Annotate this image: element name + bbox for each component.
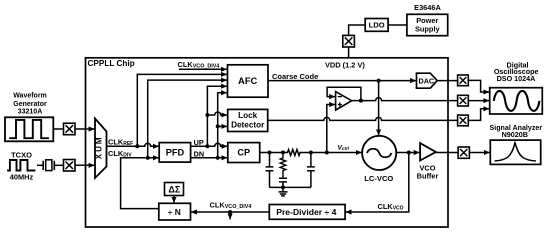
resistor R2 (vertical) [280, 153, 286, 179]
node ground rail [281, 185, 285, 189]
wire coarse code down to LC-VCO tuning input [378, 81, 380, 136]
DAC [417, 73, 438, 88]
svg-text:PFD: PFD [166, 148, 185, 158]
delta-sigma box [165, 183, 184, 196]
wire X-pad 4 to signal analyzer [469, 152, 490, 154]
svg-text:Pre-Divider ÷ 4: Pre-Divider ÷ 4 [276, 207, 336, 217]
wire LC-VCO output to VCO buffer [396, 152, 419, 154]
oscilloscope sine trace [494, 91, 540, 111]
svg-text:DSO 1024A: DSO 1024A [497, 74, 536, 83]
wire CLKREF: MUX to PFD (hop over divider riser) [107, 143, 159, 146]
wire X-pad 3 to oscilloscope [468, 109, 489, 121]
wire pre-divider output to divide-by-N [191, 211, 269, 213]
wire CLKDIV: divide-by-N output up to PFD [121, 158, 159, 209]
wire VCO buffer output to X-pad 4 [436, 152, 458, 154]
wire TCXO to crystal [37, 164, 43, 166]
svg-text:AFC: AFC [238, 75, 257, 86]
wire DN riser to lock detector input [218, 125, 228, 127]
CPPLL chip boundary box [86, 58, 449, 227]
wire DN: PFD to CP [191, 157, 228, 159]
X-pad 4 (RF output) [458, 147, 469, 158]
svg-text:DAC: DAC [419, 76, 435, 85]
svg-text:CP: CP [237, 148, 250, 158]
node CLKREF to AFC riser junction [135, 144, 139, 148]
svg-text:Waveform: Waveform [13, 93, 47, 100]
svg-text:CPPLL Chip: CPPLL Chip [88, 59, 135, 68]
MUX [95, 119, 107, 179]
wire op-amp feedback loop to inverting input [327, 87, 361, 100]
attenuator X2 (TCXO) [64, 160, 76, 172]
node DN riser to lock detector junction [216, 124, 220, 128]
wire coarse code: AFC to DAC [268, 80, 416, 82]
ground [279, 187, 288, 196]
svg-text:ΔΣ: ΔΣ [168, 185, 180, 195]
CP box [228, 143, 260, 163]
TCXO square-wave symbol [7, 160, 35, 171]
op-amp U1 (Vctrl buffer) [336, 92, 352, 111]
LDO box [365, 19, 388, 32]
lock detector box [228, 109, 268, 131]
wire loop filter ground rail [270, 186, 311, 188]
svg-text:E3646A: E3646A [414, 3, 441, 12]
waveform generator box [5, 117, 53, 141]
wire attenuator to MUX input 0 [75, 128, 95, 130]
PFD box [159, 143, 190, 163]
svg-text:Detector: Detector [231, 120, 265, 129]
svg-text:Generator: Generator [13, 101, 47, 108]
capacitor C3 [307, 153, 315, 188]
wire DN riser to AFC input 5 [218, 93, 227, 158]
node UP riser to lock detector junction [205, 113, 209, 117]
wire op-amp output to X-pad 2 (hop over VCO tuning line) [352, 98, 458, 101]
wire X-pad 1 to oscilloscope [468, 80, 489, 92]
wire DAC output to X-pad 1 [437, 80, 457, 82]
wire UP riser to lock detector input (hop over DN riser) [207, 112, 227, 115]
svg-text:40MHz: 40MHz [10, 172, 34, 181]
X-pad 2 (Vctrl monitor) [458, 95, 469, 106]
divide-by-N box [159, 203, 191, 220]
svg-text:VDD (1.2 V): VDD (1.2 V) [325, 60, 365, 69]
wire attenuator to chip VDD rail [348, 47, 350, 58]
wire delta-sigma to divide-by-N [173, 196, 175, 203]
wire crystal to attenuator [54, 164, 63, 166]
svg-text:LDO: LDO [369, 21, 385, 30]
capacitor C1 [266, 153, 274, 188]
label Digital Oscilloscope DSO 1024A [494, 60, 539, 83]
power supply box [407, 14, 448, 35]
attenuator X1 (generator) [64, 123, 76, 135]
svg-text:Coarse Code: Coarse Code [272, 72, 318, 81]
wire CLKREF riser to AFC input 2 [137, 74, 227, 146]
node loop filter C3 [309, 151, 313, 155]
node CLKVCO_DIV4 tap [228, 210, 232, 214]
wire CLKVCO_DIV4 tap stub [229, 212, 231, 219]
node VCO output to feedback junction [407, 151, 411, 155]
svg-text:÷ N: ÷ N [168, 207, 181, 217]
svg-text:CLKDIV: CLKDIV [108, 149, 132, 159]
wire power supply to LDO [388, 24, 407, 26]
node loop filter C1 [268, 151, 272, 155]
wire X-pad 2 to oscilloscope [468, 100, 489, 102]
svg-text:XUM: XUM [95, 135, 104, 159]
wire UP: PFD to CP (hop over DN riser) [191, 143, 228, 146]
crystal symbol [43, 161, 54, 170]
wire LDO to VDD attenuator [349, 25, 366, 35]
svg-text:CLKVCO_DIV4: CLKVCO_DIV4 [210, 200, 252, 210]
wire CLKDIV riser to AFC input 3 [148, 80, 227, 158]
wire lock detector output to X-pad 3 (hops over two verticals) [268, 117, 458, 120]
oscilloscope box [490, 88, 543, 114]
signal analyzer box [490, 140, 540, 164]
svg-text:TCXO: TCXO [11, 150, 32, 159]
svg-text:CLKVCO: CLKVCO [378, 202, 404, 212]
svg-text:Buffer: Buffer [417, 172, 439, 181]
node UP riser junction [205, 144, 209, 148]
wire UP riser to AFC input 4 [207, 86, 227, 146]
node loop filter RC branch [281, 151, 285, 155]
node CLKDIV to AFC riser junction [146, 156, 150, 160]
square-wave symbol inside generator [9, 120, 49, 138]
VCO buffer [420, 143, 436, 160]
capacitor C2 [279, 178, 287, 187]
svg-text:CLKVCO_DIV4: CLKVCO_DIV4 [178, 60, 220, 70]
svg-text:33210A: 33210A [18, 109, 43, 116]
wire CP output / Vctrl line with series resistor, to LC-VCO [260, 150, 362, 156]
node Vctrl to op-amp junction [325, 151, 329, 155]
node coarse code to VCO branch [377, 79, 381, 83]
label Waveform Generator 33210A [13, 93, 47, 116]
LC-VCO [362, 136, 396, 170]
signal analyzer spectrum trace [495, 143, 536, 161]
wire generator to attenuator [53, 128, 63, 130]
svg-text:N9020B: N9020B [502, 130, 528, 139]
X-pad 3 (lock monitor) [458, 115, 469, 126]
wire CLKVCO_DIV4 stub to AFC input 1 [179, 68, 227, 70]
svg-text:Lock: Lock [238, 111, 258, 120]
attenuator X3 (VDD) [343, 35, 355, 47]
node DN riser junction [216, 156, 220, 160]
svg-text:Vctrl: Vctrl [338, 144, 350, 151]
X-pad 1 (coarse code monitor) [458, 75, 469, 86]
svg-text:Supply: Supply [415, 25, 441, 34]
wire Vctrl to op-amp non-inverting input [327, 105, 335, 153]
wire attenuator to MUX input 1 [75, 164, 95, 166]
pre-divider box [269, 205, 345, 220]
wire CLKVCO feedback to pre-divider [346, 153, 409, 213]
svg-text:LC-VCO: LC-VCO [364, 174, 393, 183]
node op-amp output [359, 99, 363, 103]
AFC box [228, 65, 269, 97]
label Signal Analyzer N9020B [490, 124, 543, 139]
